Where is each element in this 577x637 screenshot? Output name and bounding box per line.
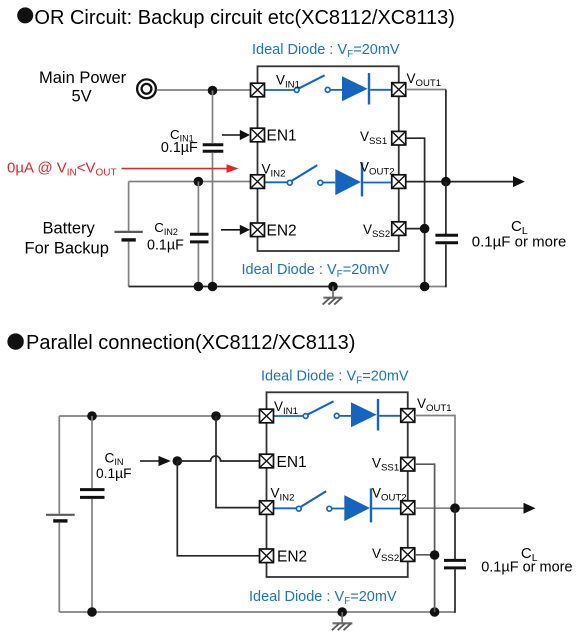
- svg-text:For Backup: For Backup: [25, 240, 109, 258]
- pin VOUT1: [392, 83, 406, 97]
- svg-text:Parallel connection(XC8112/XC8: Parallel connection(XC8112/XC8113): [26, 332, 355, 354]
- IC U2 box: [267, 392, 408, 577]
- pin VIN1: [251, 83, 265, 97]
- label: CL value: [472, 218, 567, 250]
- wire: EN node to EN2: [177, 461, 259, 556]
- wire: VSS1 bottom to vss bus: [415, 464, 435, 612]
- label: CIN2 value: [147, 220, 184, 253]
- switch S1 and ideal diode D1 (channel 1): [265, 73, 392, 105]
- svg-text:EN2: EN2: [267, 222, 297, 239]
- switch S4 and ideal diode D4 (channel 2): [274, 488, 401, 522]
- battery B1: [114, 182, 142, 287]
- wire: CIN2 bottom lead: [197, 244, 199, 287]
- pin VOUT2: [392, 175, 406, 189]
- wire: CIN2 top lead: [197, 182, 199, 233]
- svg-text:Main Power: Main Power: [39, 69, 127, 87]
- wire: EN node to EN1 with hop: [177, 456, 259, 461]
- junction: vss ground node: [420, 282, 430, 292]
- wire: ground rail left (battery to ground): [129, 286, 333, 288]
- svg-text:5V: 5V: [72, 87, 92, 105]
- svg-text:Ideal Diode : VF=20mV: Ideal Diode : VF=20mV: [242, 262, 390, 280]
- capacitor CIN2: [190, 234, 209, 242]
- junction: CIN1 ground: [208, 282, 218, 292]
- svg-text:EN1: EN1: [277, 454, 307, 471]
- svg-text:0.1µF or more: 0.1µF or more: [472, 233, 567, 250]
- svg-text:OR Circuit: Backup circuit etc: OR Circuit: Backup circuit etc(XC8112/XC…: [34, 7, 455, 29]
- arrow: red pointer to VIN2: [122, 164, 239, 173]
- pin EN2: [251, 223, 265, 237]
- svg-text:Battery: Battery: [43, 219, 96, 237]
- arrow: EN input: [140, 456, 171, 466]
- junction: vss rail ground: [430, 607, 440, 617]
- junction: VSS2 node: [420, 224, 430, 234]
- junction: CIN top: [87, 411, 97, 421]
- wire: CL bottom top lead: [454, 508, 456, 559]
- junction: output node: [441, 177, 451, 187]
- ground symbol bottom circuit: [332, 612, 353, 630]
- title: OR Circuit: [17, 7, 455, 29]
- capacitor CL bottom: [444, 560, 466, 568]
- junction: VIN2 branch: [211, 411, 221, 421]
- pin VSS2: [392, 222, 406, 236]
- wire: CL bottom bottom lead: [454, 570, 456, 613]
- wire: VOUT2 bottom to output arrow: [415, 507, 524, 509]
- pin VIN2 bottom: [260, 501, 274, 515]
- svg-text:0.1µF: 0.1µF: [161, 140, 198, 156]
- switch S2 and ideal diode D2 (channel 2): [265, 162, 392, 196]
- junction: ground node: [328, 282, 338, 292]
- wire: CIN top lead: [91, 416, 93, 488]
- pin VSS2 bottom: [401, 548, 415, 562]
- junction: main power / CIN1: [208, 86, 218, 96]
- svg-text:EN1: EN1: [267, 128, 297, 145]
- wire: VOUT1 to output bus: [406, 89, 446, 91]
- svg-text:0.1µF: 0.1µF: [96, 466, 132, 481]
- capacitor CL: [435, 235, 458, 243]
- pin VOUT2 bottom: [401, 501, 415, 515]
- label: Battery For Backup: [25, 219, 109, 257]
- pin VSS1 bottom: [401, 457, 415, 471]
- pin VIN2: [251, 175, 265, 189]
- wire: main power to VIN1: [157, 89, 251, 91]
- label: CIN value: [96, 451, 132, 481]
- svg-text:Ideal Diode : VF=20mV: Ideal Diode : VF=20mV: [249, 589, 397, 607]
- wire: battery rail to VIN2: [129, 181, 251, 183]
- label: CL bottom value: [481, 545, 572, 575]
- IC U1 box: [258, 66, 399, 251]
- junction: CIN2 ground: [194, 282, 204, 292]
- arrow: output: [513, 176, 525, 187]
- wire: VOUT1 bottom to output bus: [415, 416, 455, 509]
- junction: VSS2 node bottom: [430, 550, 440, 560]
- wire: VSS1 to vss bus: [406, 138, 425, 286]
- connector: main power input: [137, 79, 156, 98]
- junction: EN node: [173, 456, 183, 466]
- capacitor CIN: [80, 490, 105, 498]
- arrow: EN2 input: [221, 225, 250, 235]
- junction: ground node bottom: [337, 607, 347, 617]
- pin EN1 bottom: [260, 454, 274, 468]
- title: Parallel connection: [7, 332, 355, 354]
- wire: top rail to VIN1: [59, 415, 259, 417]
- svg-text:0.1µF: 0.1µF: [147, 238, 184, 254]
- battery B2: [46, 416, 75, 612]
- wire: CL bottom lead: [445, 244, 447, 287]
- wire: output bus vertical: [445, 90, 447, 182]
- wire: ground rail right: [333, 286, 446, 288]
- wire: CIN1 bottom lead to ground rail: [212, 153, 214, 287]
- pin EN2 bottom: [260, 549, 274, 563]
- svg-text:Ideal Diode : VF=20mV: Ideal Diode : VF=20mV: [261, 368, 409, 386]
- pin VSS1: [392, 131, 406, 145]
- wire: CL top lead: [445, 182, 447, 234]
- pin VIN1 bottom: [260, 409, 274, 423]
- capacitor CIN1: [203, 145, 224, 152]
- wire: VSS2 to vss bus: [406, 228, 425, 230]
- wire: CIN bottom lead: [91, 499, 93, 612]
- ground symbol top circuit: [323, 287, 343, 305]
- switch S3 and ideal diode D3 (channel 1): [274, 399, 401, 431]
- wire: bottom ground rail: [59, 611, 455, 613]
- junction: output node bottom: [450, 503, 460, 513]
- wire: VSS2 bottom to vss bus: [415, 554, 435, 556]
- svg-text:0.1µF or more: 0.1µF or more: [481, 560, 572, 576]
- wire: rail branch to VIN2: [216, 416, 260, 508]
- wire: VOUT2 to output arrow: [406, 181, 514, 183]
- arrow: output bottom: [524, 503, 536, 514]
- pin EN1: [251, 128, 265, 142]
- junction: CIN ground: [87, 607, 97, 617]
- arrow: EN1 input: [222, 130, 250, 140]
- svg-text:Ideal Diode : VF=20mV: Ideal Diode : VF=20mV: [252, 42, 400, 60]
- svg-text:EN2: EN2: [277, 549, 307, 566]
- wire: CIN1 top lead: [212, 91, 214, 144]
- label: Main Power 5V: [39, 69, 127, 105]
- junction: CIN2 top: [194, 177, 204, 187]
- pin VOUT1 bottom: [401, 409, 415, 423]
- label: CIN1 value: [161, 127, 198, 156]
